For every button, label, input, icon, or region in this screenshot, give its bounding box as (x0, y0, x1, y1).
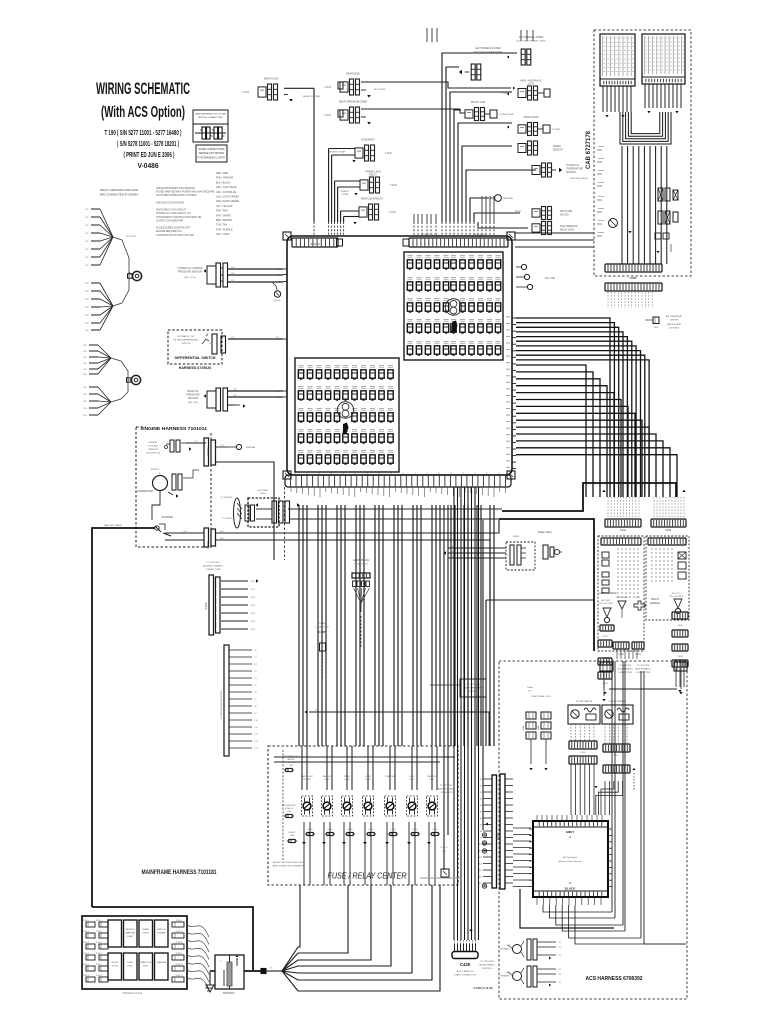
svg-text:FRONT LOW: FRONT LOW (471, 101, 486, 104)
wire bus: top components down to header (313, 88, 315, 222)
acs controller left pins (529, 828, 533, 830)
svg-text:GLOW PLUGS: GLOW PLUGS (353, 559, 369, 562)
svg-text:TRACTION: TRACTION (140, 961, 152, 964)
acs controller top pins (536, 815, 538, 821)
connector strip C410 (605, 519, 641, 527)
svg-text:BEHAVE NOT SHOWN: BEHAVE NOT SHOWN (199, 152, 224, 155)
svg-text:A13: A13 (479, 863, 482, 866)
wires: controller top-right to cab box (515, 232, 594, 234)
svg-text:LIGHT: LIGHT (324, 779, 331, 781)
tilt actuator pins (570, 724, 572, 741)
svg-text:Printed in U.S.A.: Printed in U.S.A. (123, 991, 142, 995)
sensor connector: hydraulic temperature sensor (532, 166, 540, 175)
svg-text:T29: T29 (558, 982, 561, 984)
svg-text:GRAVITY: GRAVITY (341, 190, 350, 193)
svg-text:(BACKUP ALARM): (BACKUP ALARM) (438, 788, 455, 791)
svg-text:C428: C428 (460, 962, 471, 967)
svg-text:T-B (B75 watt?): T-B (B75 watt?) (354, 563, 368, 566)
svg-text:(ALTERNATOR): (ALTERNATOR) (284, 755, 299, 758)
fuse panel labeled switch boxes (108, 920, 122, 947)
svg-text:C424: C424 (580, 752, 586, 754)
svg-text:TO SENDER: TO SENDER (220, 497, 232, 499)
wire: brake valve feed from bundle (447, 505, 449, 548)
long vertical pair 3 from C425 (640, 671, 642, 938)
svg-text:FUEL: FUEL (127, 962, 133, 964)
svg-text:ALTERNATOR: ALTERNATOR (137, 490, 153, 493)
ring terminal ground 1 (122, 240, 129, 303)
battery cable: to handles (499, 519, 594, 651)
svg-text:SUPPLY: SUPPLY (151, 469, 160, 471)
svg-text:To Aux: To Aux (527, 686, 533, 689)
svg-text:WIRING SCHEMATIC: WIRING SCHEMATIC (96, 80, 190, 98)
connector C802 bars (492, 775, 497, 888)
svg-text:RELAY (AUX): RELAY (AUX) (560, 229, 574, 232)
svg-text:PULL: PULL (429, 779, 435, 781)
corner tab top-right (507, 232, 515, 240)
center vertical wire bundle (298, 505, 300, 746)
main block right edge pins (512, 317, 516, 319)
svg-text:Sun CAB: Sun CAB (545, 277, 555, 280)
relay outputs to box bottom (303, 822, 305, 885)
svg-text:STARTER: STARTER (161, 516, 173, 519)
svg-text:FUEL BREAKER: FUEL BREAKER (560, 225, 578, 228)
svg-text:HANDLE: HANDLE (650, 601, 661, 605)
svg-text:AIR FILTER: AIR FILTER (560, 210, 573, 213)
svg-text:CENTER: CENTER (670, 320, 679, 322)
svg-text:(ACTUATORS): (ACTUATORS) (282, 804, 296, 807)
wires: C421 strip down to controller (604, 781, 606, 815)
svg-text:PUR / PURPLE: PUR / PURPLE (216, 228, 233, 231)
svg-text:T-AUX: T-AUX (324, 114, 331, 117)
svg-text:PULL GROUNDS: PULL GROUNDS (669, 596, 684, 598)
svg-text:C110: C110 (206, 448, 210, 455)
header tab left of top-right strip (403, 239, 409, 246)
svg-text:32 33 21 4 1 3 2 1: 32 33 21 4 1 3 2 1 (421, 234, 439, 236)
corner tab top-left (283, 232, 291, 240)
left column connectors C413 (598, 640, 612, 647)
svg-text:C407: C407 (653, 327, 659, 329)
left handle top strip (601, 538, 641, 545)
svg-text:(AVL P30): (AVL P30) (188, 401, 198, 404)
svg-text:RELAY GROUNDS 2000-2003: RELAY GROUNDS 2000-2003 (100, 188, 139, 192)
svg-text:LIGHTS CON-SIDE PWR: LIGHTS CON-SIDE PWR (156, 219, 184, 222)
main controller block outline (287, 236, 512, 475)
wire: long feed to left handle (486, 599, 594, 601)
wire: differential switch to controller (228, 338, 283, 340)
wires: frame lean to vertical bus (335, 180, 360, 182)
svg-text:FUSE: FUSE (369, 829, 375, 831)
wires: starter to C109 (165, 532, 204, 534)
svg-text:SWITCHING CON-CIRCUIT: SWITCHING CON-CIRCUIT (156, 209, 187, 212)
svg-text:A16: A16 (479, 882, 482, 885)
svg-text:LOCK: LOCK (528, 82, 535, 85)
svg-text:FUSE 11: FUSE 11 (287, 762, 296, 764)
svg-text:CAB: CAB (522, 725, 525, 730)
svg-text:ARE CONNECTED IN SERIES: ARE CONNECTED IN SERIES (273, 865, 304, 868)
legend box: connector example symbols (193, 124, 228, 142)
arrows at component feeds (507, 55, 509, 58)
svg-text:RIGHT PEDAL LOCK: RIGHT PEDAL LOCK (531, 695, 551, 698)
svg-text:A7: A7 (480, 824, 482, 827)
svg-text:A11: A11 (479, 850, 482, 853)
air valve terminal (495, 195, 502, 202)
svg-text:C410: C410 (620, 528, 627, 532)
wires: C424 strip down to controller (570, 764, 572, 815)
wire: accessory run with arrow (305, 710, 308, 714)
svg-text:TO OPTIONS (ACCESSORY): TO OPTIONS (ACCESSORY) (220, 690, 223, 719)
cab horn circle (609, 219, 618, 228)
left handle wire stubs (617, 548, 619, 598)
svg-text:T-AUX: T-AUX (390, 184, 397, 187)
wire: rear spread long feed (361, 108, 460, 110)
cab small relays (655, 233, 661, 239)
svg-text:SENSOR: SENSOR (148, 449, 158, 451)
svg-text:TO AUX: TO AUX (552, 128, 561, 131)
svg-text:SWITCH: SWITCH (560, 215, 569, 217)
svg-text:ATTACHMENT CONTROLS ROCKER TEL: ATTACHMENT CONTROLS ROCKER TEL (156, 216, 202, 219)
connector C407 small (653, 317, 659, 324)
svg-text:SWITCH: SWITCH (182, 343, 191, 345)
svg-text:FUSE: FUSE (413, 829, 419, 831)
svg-text:COOLANT: COOLANT (148, 445, 159, 448)
header connector strip top-left (292, 238, 338, 247)
battery (215, 955, 244, 989)
svg-text:LUMBAR FAN: LUMBAR FAN (316, 626, 329, 629)
svg-text:TILT ACTUATOR: TILT ACTUATOR (576, 700, 593, 703)
svg-text:CONTROL): CONTROL) (481, 968, 493, 970)
ground tree 1 (91, 208, 100, 210)
svg-text:PLUG: PLUG (112, 965, 118, 967)
svg-text:LEFT SPREAD LOWER: LEFT SPREAD LOWER (475, 47, 501, 50)
svg-text:STRAP: STRAP (342, 193, 349, 196)
svg-text:TO AUX PUMP: TO AUX PUMP (499, 113, 514, 116)
svg-text:FUSE 12: FUSE 12 (440, 847, 447, 849)
svg-text:TO OPTIONS: TO OPTIONS (480, 961, 494, 963)
vertical bundle into relay area (301, 746, 303, 790)
relay connector: fuel breaker relay (532, 224, 540, 232)
switch connector: air filter switch (532, 209, 540, 217)
wires: C109 to fuse relay center (216, 520, 499, 533)
svg-text:C403: C403 (602, 683, 608, 685)
svg-text:STARTER: STARTER (385, 775, 395, 778)
fuse below relay REAR (347, 832, 353, 835)
svg-text:A9: A9 (480, 837, 482, 840)
main block left edge pins (283, 268, 287, 270)
svg-text:REAR: REAR (143, 928, 149, 931)
cab nested junction rectangles (620, 112, 671, 144)
fuse below relay STARTER (390, 832, 396, 835)
connector strip C409 (651, 519, 686, 527)
bus wires inside fuse relay center (274, 756, 455, 758)
svg-text:PRESSURE SENSOR: PRESSURE SENSOR (178, 271, 202, 274)
wire stubs below bottom header (290, 487, 292, 492)
svg-text:LIGHT: LIGHT (142, 932, 149, 934)
wire stubs above page top components (426, 28, 428, 42)
svg-text:GLOW: GLOW (111, 962, 119, 964)
wire: C110 long feed to center (216, 462, 274, 560)
svg-text:AIR FUSE/RELAY: AIR FUSE/RELAY (666, 315, 683, 318)
fuse below relay FUEL (412, 832, 418, 835)
right handle top strip (648, 538, 686, 545)
connector strip C421 (603, 744, 630, 752)
arrow up near C421 (632, 768, 635, 770)
fuse panel wire fan (187, 925, 209, 937)
svg-text:SENSOR: SENSOR (553, 150, 563, 152)
lift actuator pins (604, 724, 606, 743)
svg-text:GRL / GOVBOLUE: GRL / GOVBOLUE (216, 191, 237, 194)
svg-text:ENGINE: ENGINE (149, 442, 158, 444)
svg-text:TURN SIGNAL: TURN SIGNAL (616, 596, 628, 599)
svg-text:WRE-A: WRE-A (274, 299, 281, 302)
C802 left stubs (483, 778, 492, 780)
svg-text:(AUX LEFT): (AUX LEFT) (601, 599, 611, 602)
wire: alternator to C109 (152, 491, 160, 520)
svg-text:T27: T27 (558, 969, 561, 971)
wire stubs near header top-right (413, 214, 415, 222)
svg-text:PLUG: PLUG (365, 779, 371, 781)
ring terminal ground 2 (121, 361, 128, 399)
svg-text:(AUX/PRIMARY): (AUX/PRIMARY) (635, 668, 650, 671)
connector blob glyph P01 (452, 321, 458, 333)
svg-text:FILTER (DIFFERENTIAL): FILTER (DIFFERENTIAL) (174, 339, 199, 342)
diode to ground on wire 513 (272, 282, 277, 290)
sensor connector: speed sensor (518, 144, 526, 153)
svg-text:GREY: GREY (566, 830, 575, 834)
svg-text:BLK / BLACK: BLK / BLACK (216, 181, 231, 184)
svg-text:A6: A6 (480, 817, 482, 820)
connector C109 (204, 528, 209, 547)
svg-text:TRACTION: TRACTION (427, 775, 438, 778)
cab connector table 1 (600, 34, 635, 86)
staircase wires: controller to cab-handles (upper) (516, 318, 610, 497)
acs harness box (499, 661, 687, 999)
svg-text:HYDRAULIC OIL: HYDRAULIC OIL (178, 335, 196, 338)
svg-text:CONNECTORS: CONNECTORS (636, 672, 651, 674)
differential switch harness box (168, 330, 222, 364)
cable: fuel delivery feed upper (288, 508, 502, 510)
cab table pin wires 2 (644, 84, 646, 108)
svg-text:( PRINT ED JUN E 2006 ): ( PRINT ED JUN E 2006 ) (124, 150, 175, 159)
svg-text:ACROSS CONNECTORS: ACROSS CONNECTORS (199, 116, 223, 119)
svg-text:A15: A15 (479, 876, 482, 879)
svg-text:NOT AUX: NOT AUX (318, 622, 327, 625)
svg-text:PULL: PULL (409, 779, 415, 781)
svg-text:HYDRAULIC CON-CIRCUIT LSI: HYDRAULIC CON-CIRCUIT LSI (156, 212, 191, 215)
svg-text:BATTERY: BATTERY (223, 991, 235, 995)
wires: rear oil sensor to controller (228, 390, 283, 392)
svg-text:FUSED WANTED/WAS POWER WAS W: FUSED WANTED/WAS POWER WAS WAS REQUIRE (156, 191, 215, 194)
svg-text:WRE A/B: WRE A/B (246, 446, 256, 449)
svg-text:DGN / DARK GREEN: DGN / DARK GREEN (216, 200, 239, 203)
svg-text:GROUNDS/POWER WAS WANTED: GROUNDS/POWER WAS WANTED (156, 187, 195, 190)
svg-text:30 31 32: 30 31 32 (310, 243, 320, 246)
svg-text:TAN / TAN: TAN / TAN (216, 224, 227, 227)
svg-text:LIGHT: LIGHT (127, 936, 134, 938)
svg-text:A5: A5 (480, 811, 482, 814)
nested elbows below controller (543, 905, 612, 912)
battery junction (261, 969, 266, 974)
cab connector stack 1 (526, 712, 536, 719)
handle feed pin hatches right (653, 497, 655, 519)
wires: charge sensor to controller (228, 268, 283, 270)
left edge dashed drop (284, 487, 286, 560)
wires: rear lean to vertical bus (341, 210, 359, 212)
svg-text:GLOW: GLOW (365, 776, 371, 778)
svg-text:FUSE / RELAY CENTER: FUSE / RELAY CENTER (328, 871, 407, 881)
right handle connectors (678, 552, 686, 559)
svg-text:BRN / BROWN: BRN / BROWN (216, 219, 232, 222)
wire: rear flow to header (284, 87, 314, 89)
svg-text:ACCESSORIES CON/THE OPT: ACCESSORIES CON/THE OPT (156, 227, 191, 230)
svg-text:START CONNECTOR: START CONNECTOR (454, 974, 476, 977)
battery cable: starter to left edge and down (92, 528, 155, 907)
svg-text:GROUND CON-GROUND: GROUND CON-GROUND (156, 201, 184, 204)
svg-text:DELIVERY: DELIVERY (258, 490, 269, 492)
svg-text:T-AUX: T-AUX (324, 86, 331, 89)
svg-text:TEMPERATURE: TEMPERATURE (566, 168, 584, 171)
svg-text:FUEL: FUEL (260, 493, 266, 495)
C802 right stubs (505, 778, 513, 780)
svg-text:BATTERY CABLE: BATTERY CABLE (104, 524, 122, 527)
svg-text:SWITCHED POWER WAS CONTROL: SWITCHED POWER WAS CONTROL (156, 194, 197, 197)
cab connector table 2 (642, 34, 685, 84)
svg-text:CAB: CAB (630, 276, 637, 280)
fuse panel box (82, 916, 187, 989)
svg-text:FUSE 10: FUSE 10 (285, 808, 294, 810)
svg-text:PNK / PNK: PNK / PNK (216, 210, 228, 213)
sub-block lower-left component grid (298, 364, 303, 366)
svg-text:PNK / ORANGE: PNK / ORANGE (216, 177, 234, 180)
svg-text:A/B FW: A/B FW (288, 758, 295, 761)
header connector strip bottom (285, 475, 511, 487)
svg-text:POWER: POWER (303, 779, 311, 781)
svg-text:RELAY BY STRAP: RELAY BY STRAP (303, 95, 321, 98)
svg-text:C412: C412 (635, 653, 641, 656)
ground tree 3 (89, 344, 98, 346)
cab connector strip 2 (605, 283, 662, 291)
svg-text:Brake Valve: Brake Valve (538, 530, 552, 534)
long vertical pair 1 from handles (611, 661, 613, 912)
svg-text:FUSE: FUSE (348, 829, 354, 831)
wire: C110 to relay (diode) (216, 446, 228, 448)
svg-text:WHT / WHITE: WHT / WHITE (216, 214, 231, 217)
svg-text:C406: C406 (677, 625, 683, 627)
svg-text:A12: A12 (479, 856, 482, 859)
svg-text:T-AUX: T-AUX (389, 211, 396, 214)
svg-text:REAR FLOW: REAR FLOW (264, 78, 279, 81)
svg-text:STAND: STAND (513, 535, 520, 538)
svg-text:TILT SPREAD LOWER: TILT SPREAD LOWER (519, 36, 544, 39)
battery feed fan to fuse relay center (282, 885, 300, 971)
ground symbol at battery (209, 971, 211, 985)
wire elbows: feeds to top components (442, 53, 517, 222)
svg-text:T28: T28 (558, 974, 561, 976)
cab strip pin hatch (607, 292, 609, 308)
svg-text:T25: T25 (558, 947, 561, 949)
svg-text:FUSE 1: FUSE 1 (288, 832, 296, 834)
svg-text:V-0486 (5-19-03): V-0486 (5-19-03) (473, 986, 493, 990)
svg-text:ARE CONNECTED IN SERIES: ARE CONNECTED IN SERIES (100, 193, 139, 197)
svg-text:RED / RED: RED / RED (216, 172, 228, 175)
wires: handles to ACS box (616, 649, 618, 659)
svg-text:A3: A3 (480, 798, 482, 801)
ground tree 4 (89, 386, 98, 388)
svg-text:C409: C409 (665, 528, 672, 532)
svg-text:GROUNDS: GROUNDS (126, 236, 137, 238)
svg-text:SWITCH: SWITCH (469, 691, 478, 693)
svg-text:REAR BASE: REAR BASE (346, 73, 360, 76)
fuse below relay MARKER (327, 832, 333, 835)
battery cable: fuse center to right frame (502, 483, 676, 511)
cab X-connectors right 1 (658, 188, 663, 201)
spare terminals (sun cab) (516, 266, 521, 268)
svg-text:TO OPTIONS: TO OPTIONS (440, 785, 453, 787)
svg-text:RELAY: RELAY (369, 173, 377, 176)
svg-text:C413: C413 (602, 636, 608, 638)
svg-text:FIELD/RUN (AUX): FIELD/RUN (AUX) (570, 177, 588, 180)
svg-text:RELAY BY STRAP: RELAY BY STRAP (329, 151, 346, 154)
svg-text:A2: A2 (480, 791, 482, 794)
connector C425 left (600, 662, 613, 671)
svg-text:Fan: Fan (528, 691, 531, 693)
svg-text:A10: A10 (479, 843, 482, 846)
svg-text:AUGER/BKT: AUGER/BKT (361, 139, 375, 142)
svg-text:MAINFRAME HARNESS 7101181: MAINFRAME HARNESS 7101181 (142, 869, 217, 876)
svg-text:POWER: POWER (157, 932, 166, 934)
fuel sender oval (234, 498, 241, 528)
svg-text:C109: C109 (206, 541, 210, 549)
svg-text:MARKER: MARKER (126, 931, 136, 934)
svg-text:CONNECTOR: CONNECTOR (440, 792, 453, 794)
cab vertical bundle below junction (621, 146, 623, 264)
fuse below relay TRACTION (432, 832, 438, 835)
svg-text:ENGINE HARNESS 7101011: ENGINE HARNESS 7101011 (141, 426, 207, 431)
corner tab bottom-left (283, 471, 291, 479)
svg-text:FUSE: FUSE (391, 829, 397, 831)
wire: handles bottom bus (609, 688, 677, 690)
svg-text:(RADIO/FLASH: (RADIO/FLASH (667, 323, 682, 326)
svg-text:(AUX TILT): (AUX TILT) (672, 592, 681, 595)
svg-text:C437: C437 (318, 630, 326, 634)
svg-text:A8: A8 (480, 830, 482, 833)
vertical bundle to C428 and C802 (453, 487, 455, 940)
svg-text:SPEED: SPEED (553, 146, 561, 148)
svg-text:(With ACS Option): (With ACS Option) (101, 104, 185, 121)
svg-text:PULL: PULL (127, 965, 133, 967)
svg-text:(SEAT/LAP ALARM): (SEAT/LAP ALARM) (463, 687, 483, 690)
svg-text:BACK/LIGHT: BACK/LIGHT (301, 775, 314, 778)
switch: seat/lap alarm option (460, 679, 486, 697)
svg-text:( S/N 5278 11001 - 5278 18201: ( S/N 5278 11001 - 5278 18201 ) (117, 139, 179, 148)
ground tree 2 (91, 282, 100, 284)
cab table pin wires 1 (602, 86, 604, 112)
svg-text:8 38 40 5 6: 8 38 40 5 6 (475, 234, 487, 236)
svg-text:T 190 ( S/N 5277 11001 - 5277: T 190 ( S/N 5277 11001 - 5277 16480 ) (105, 128, 182, 137)
left handle lower connectors C411 C412 (613, 642, 629, 649)
sub-block upper-right outline (404, 252, 503, 360)
svg-text:C103: C103 (204, 602, 208, 610)
svg-text:ACS (multiple): ACS (multiple) (563, 856, 577, 859)
heavy elbow below controller (520, 889, 614, 928)
svg-text:FRONT &: FRONT & (125, 929, 135, 931)
right handle wire stubs (651, 548, 653, 584)
acs controller block (533, 821, 608, 897)
svg-text:T-AUX: T-AUX (242, 91, 249, 94)
right handle box (646, 536, 689, 620)
svg-text:(PRIMARY): (PRIMARY) (500, 948, 511, 951)
ring terminals near C802 (482, 833, 486, 837)
svg-text:TO OPTIONS: TO OPTIONS (637, 665, 650, 667)
